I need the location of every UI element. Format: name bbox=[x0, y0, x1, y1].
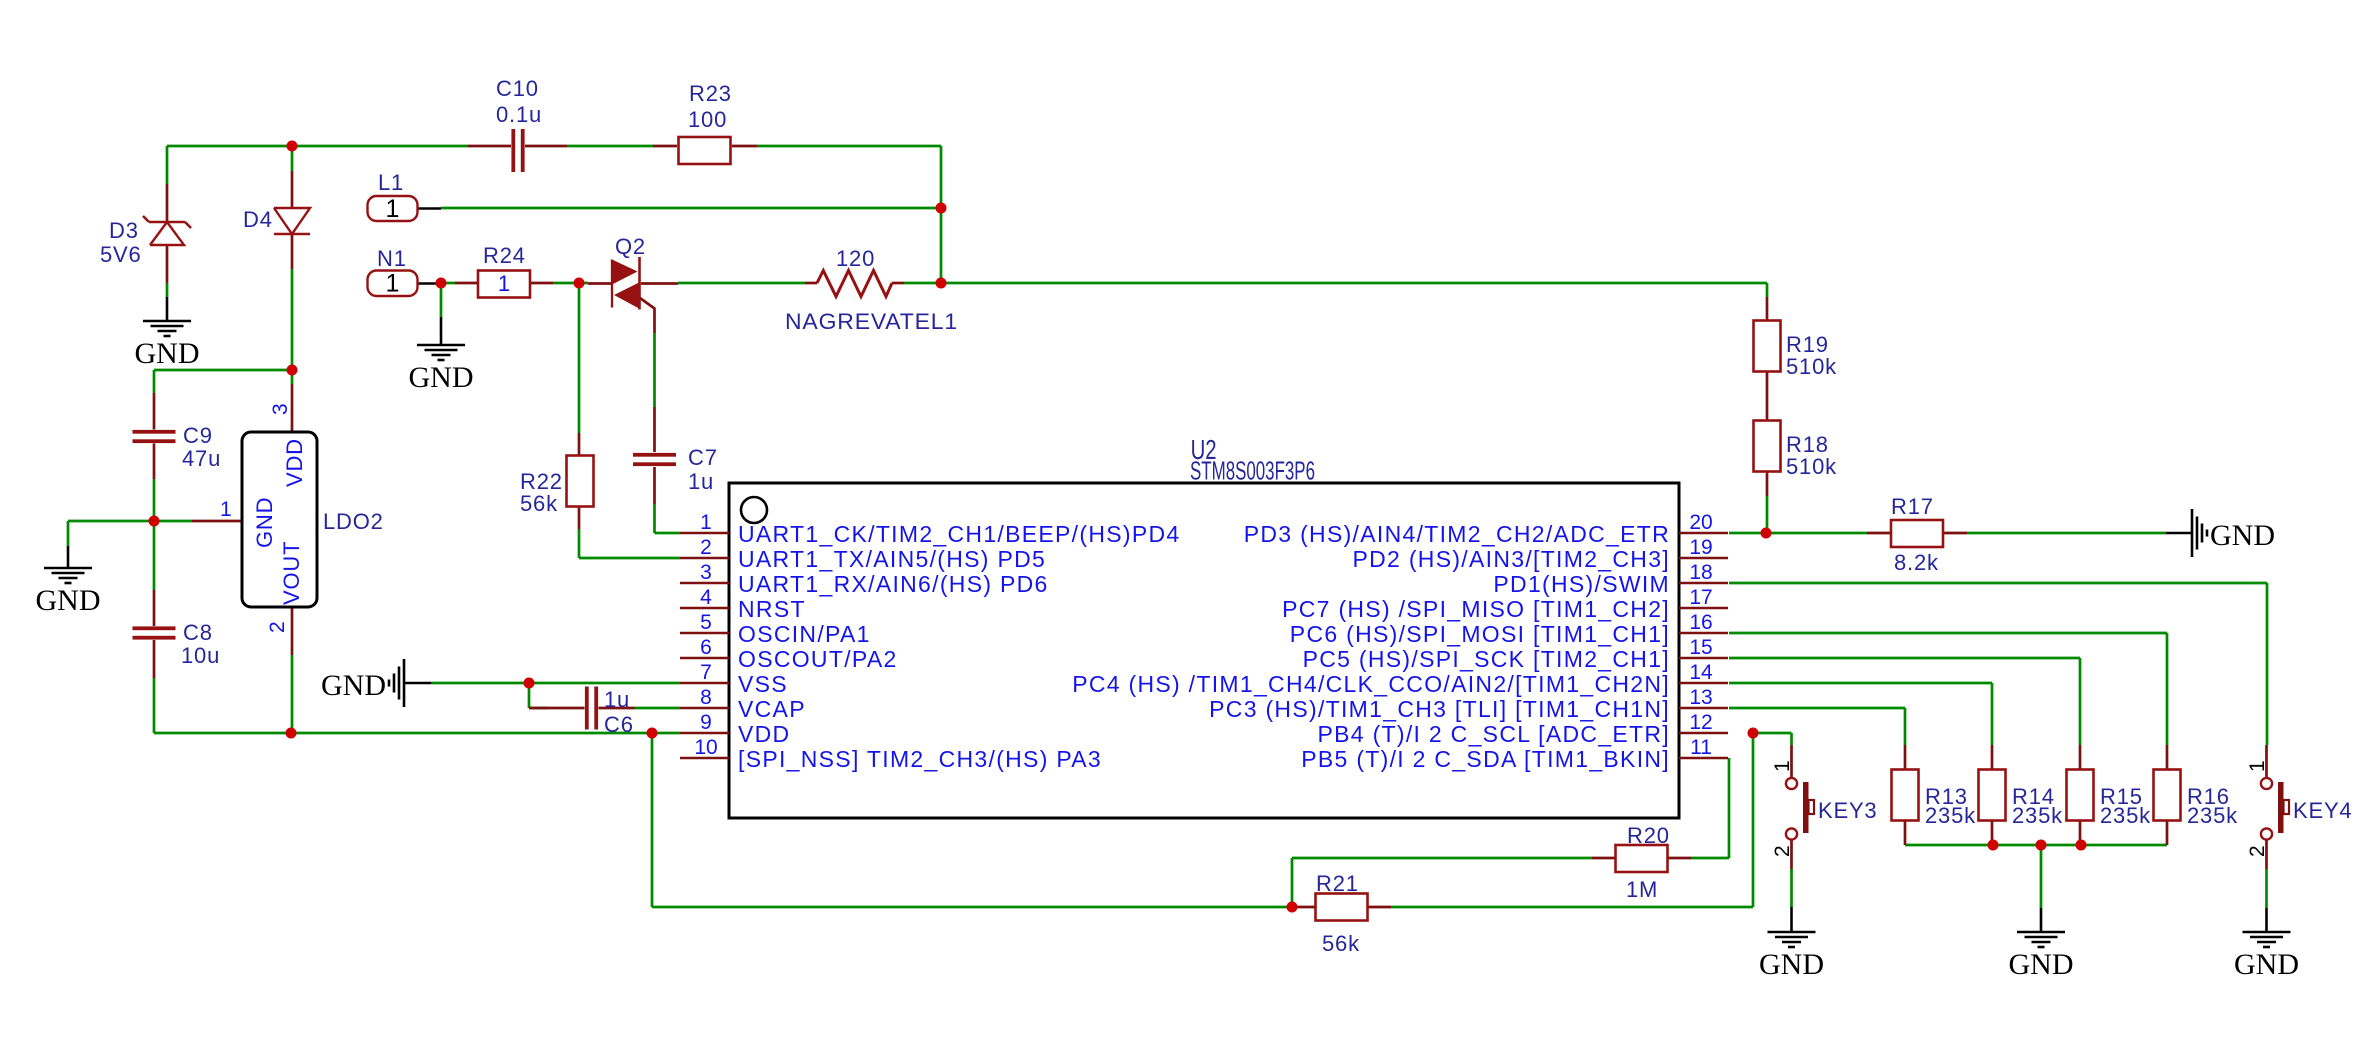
svg-text:C8: C8 bbox=[183, 620, 213, 645]
svg-text:2: 2 bbox=[266, 621, 289, 633]
svg-text:1: 1 bbox=[220, 498, 232, 521]
svg-text:PC7 (HS) /SPI_MISO [TIM1_CH2]: PC7 (HS) /SPI_MISO [TIM1_CH2] bbox=[1282, 596, 1670, 622]
svg-text:19: 19 bbox=[1689, 536, 1712, 559]
svg-text:1u: 1u bbox=[604, 687, 630, 712]
svg-text:KEY4: KEY4 bbox=[2293, 798, 2352, 823]
svg-text:OSCIN/PA1: OSCIN/PA1 bbox=[738, 621, 871, 647]
svg-text:UART1_CK/TIM2_CH1/BEEP/(HS)PD4: UART1_CK/TIM2_CH1/BEEP/(HS)PD4 bbox=[738, 521, 1180, 547]
svg-text:11: 11 bbox=[1690, 736, 1712, 759]
svg-text:OSCOUT/PA2: OSCOUT/PA2 bbox=[738, 646, 898, 672]
svg-text:C6: C6 bbox=[604, 712, 634, 737]
svg-text:R21: R21 bbox=[1316, 871, 1359, 896]
svg-text:235k: 235k bbox=[2012, 803, 2063, 828]
svg-text:PD2 (HS)/AIN3/[TIM2_CH3]: PD2 (HS)/AIN3/[TIM2_CH3] bbox=[1353, 546, 1671, 572]
svg-text:[SPI_NSS] TIM2_CH3/(HS) PA3: [SPI_NSS] TIM2_CH3/(HS) PA3 bbox=[738, 746, 1102, 772]
svg-text:GND: GND bbox=[2234, 948, 2299, 981]
svg-text:VDD: VDD bbox=[282, 438, 307, 487]
svg-text:PB4 (T)/I 2 C_SCL [ADC_ETR]: PB4 (T)/I 2 C_SCL [ADC_ETR] bbox=[1318, 721, 1671, 747]
svg-text:Q2: Q2 bbox=[615, 234, 646, 259]
svg-text:1: 1 bbox=[2246, 760, 2269, 772]
svg-text:14: 14 bbox=[1689, 661, 1713, 684]
svg-text:3: 3 bbox=[269, 403, 292, 415]
svg-text:KEY3: KEY3 bbox=[1818, 798, 1877, 823]
svg-text:GND: GND bbox=[2009, 948, 2074, 981]
svg-text:510k: 510k bbox=[1786, 454, 1837, 479]
svg-text:GND: GND bbox=[2210, 519, 2275, 552]
svg-text:R24: R24 bbox=[483, 243, 526, 268]
svg-text:GND: GND bbox=[135, 337, 200, 370]
svg-text:1: 1 bbox=[386, 270, 400, 298]
svg-text:4: 4 bbox=[700, 586, 712, 609]
svg-text:510k: 510k bbox=[1786, 354, 1837, 379]
svg-text:R23: R23 bbox=[689, 81, 732, 106]
svg-text:PD3 (HS)/AIN4/TIM2_CH2/ADC_ETR: PD3 (HS)/AIN4/TIM2_CH2/ADC_ETR bbox=[1244, 521, 1670, 547]
svg-text:1u: 1u bbox=[688, 469, 714, 494]
svg-text:PD1(HS)/SWIM: PD1(HS)/SWIM bbox=[1493, 571, 1670, 597]
svg-text:0.1u: 0.1u bbox=[496, 102, 542, 127]
svg-text:10u: 10u bbox=[181, 643, 220, 668]
svg-text:100: 100 bbox=[688, 107, 727, 132]
svg-text:13: 13 bbox=[1689, 686, 1712, 709]
svg-text:1M: 1M bbox=[1626, 877, 1658, 902]
svg-text:1: 1 bbox=[1771, 760, 1794, 772]
svg-text:GND: GND bbox=[252, 497, 277, 548]
svg-text:GND: GND bbox=[36, 584, 101, 617]
svg-text:PC4 (HS) /TIM1_CH4/CLK_CCO/AIN: PC4 (HS) /TIM1_CH4/CLK_CCO/AIN2/[TIM1_CH… bbox=[1072, 671, 1670, 697]
svg-text:GND: GND bbox=[321, 669, 386, 702]
svg-text:D4: D4 bbox=[243, 207, 273, 232]
svg-text:N1: N1 bbox=[377, 246, 407, 271]
svg-text:5V6: 5V6 bbox=[100, 242, 142, 267]
svg-text:PB5 (T)/I 2 C_SDA [TIM1_BKIN]: PB5 (T)/I 2 C_SDA [TIM1_BKIN] bbox=[1301, 746, 1670, 772]
svg-text:17: 17 bbox=[1689, 586, 1712, 609]
svg-text:VSS: VSS bbox=[738, 671, 788, 697]
svg-text:1: 1 bbox=[386, 195, 400, 223]
svg-text:2: 2 bbox=[1771, 845, 1794, 857]
svg-text:NRST: NRST bbox=[738, 596, 806, 622]
svg-text:LDO2: LDO2 bbox=[323, 509, 384, 534]
svg-text:UART1_RX/AIN6/(HS) PD6: UART1_RX/AIN6/(HS) PD6 bbox=[738, 571, 1049, 597]
svg-text:STM8S003F3P6: STM8S003F3P6 bbox=[1190, 456, 1315, 486]
svg-text:8.2k: 8.2k bbox=[1894, 550, 1939, 575]
svg-text:VCAP: VCAP bbox=[738, 696, 806, 722]
svg-text:56k: 56k bbox=[1322, 931, 1360, 956]
svg-text:D3: D3 bbox=[109, 218, 139, 243]
svg-text:1: 1 bbox=[700, 511, 712, 534]
svg-text:16: 16 bbox=[1689, 611, 1712, 634]
svg-text:L1: L1 bbox=[378, 170, 404, 195]
svg-text:R17: R17 bbox=[1891, 494, 1934, 519]
svg-text:235k: 235k bbox=[1925, 803, 1976, 828]
svg-text:PC3 (HS)/TIM1_CH3 [TLI] [TIM1_: PC3 (HS)/TIM1_CH3 [TLI] [TIM1_CH1N] bbox=[1209, 696, 1670, 722]
svg-text:C10: C10 bbox=[496, 76, 539, 101]
svg-text:NAGREVATEL1: NAGREVATEL1 bbox=[785, 309, 958, 334]
svg-text:10: 10 bbox=[694, 736, 717, 759]
svg-text:C9: C9 bbox=[183, 423, 213, 448]
svg-text:6: 6 bbox=[700, 636, 712, 659]
svg-text:9: 9 bbox=[700, 711, 712, 734]
svg-text:7: 7 bbox=[700, 661, 712, 684]
svg-text:R20: R20 bbox=[1627, 823, 1670, 848]
svg-text:2: 2 bbox=[700, 536, 712, 559]
svg-text:47u: 47u bbox=[182, 446, 221, 471]
svg-text:PC6 (HS)/SPI_MOSI [TIM1_CH1]: PC6 (HS)/SPI_MOSI [TIM1_CH1] bbox=[1290, 621, 1670, 647]
svg-text:12: 12 bbox=[1689, 711, 1712, 734]
svg-text:120: 120 bbox=[836, 246, 875, 271]
svg-text:GND: GND bbox=[409, 361, 474, 394]
svg-text:5: 5 bbox=[700, 611, 712, 634]
svg-text:235k: 235k bbox=[2100, 803, 2151, 828]
svg-text:20: 20 bbox=[1689, 511, 1712, 534]
svg-text:C7: C7 bbox=[688, 445, 718, 470]
svg-text:15: 15 bbox=[1689, 636, 1712, 659]
svg-text:3: 3 bbox=[700, 561, 712, 584]
svg-text:18: 18 bbox=[1689, 561, 1712, 584]
svg-text:GND: GND bbox=[1759, 948, 1824, 981]
svg-text:56k: 56k bbox=[520, 491, 558, 516]
svg-text:VDD: VDD bbox=[738, 721, 790, 747]
svg-text:VOUT: VOUT bbox=[279, 541, 304, 605]
svg-text:235k: 235k bbox=[2187, 803, 2238, 828]
svg-text:UART1_TX/AIN5/(HS) PD5: UART1_TX/AIN5/(HS) PD5 bbox=[738, 546, 1046, 572]
svg-text:2: 2 bbox=[2246, 845, 2269, 857]
svg-text:8: 8 bbox=[700, 686, 712, 709]
svg-text:PC5 (HS)/SPI_SCK [TIM2_CH1]: PC5 (HS)/SPI_SCK [TIM2_CH1] bbox=[1303, 646, 1670, 672]
svg-text:1: 1 bbox=[498, 271, 510, 296]
